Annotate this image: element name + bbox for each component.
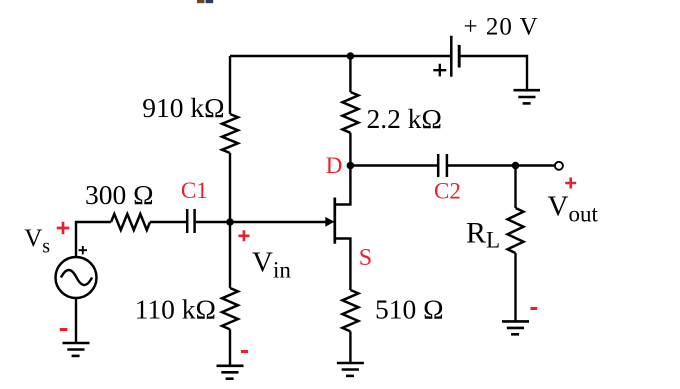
source Vs sine wave [61, 270, 92, 285]
ground (510) [337, 363, 364, 376]
resistor 910k [222, 114, 238, 153]
wire 110k bottom to ground [229, 329, 231, 366]
ground (battery) [514, 90, 541, 103]
svg-text:2.2 kΩ: 2.2 kΩ [367, 103, 442, 134]
label red + (Vs) [57, 222, 70, 235]
wire 510 bottom to ground [349, 331, 351, 363]
svg-text:Vs: Vs [24, 225, 50, 258]
wire Vs bottom to ground [75, 298, 77, 343]
svg-text:110 kΩ: 110 kΩ [135, 294, 216, 325]
node D junction dot [347, 162, 355, 170]
svg-text:510 Ω: 510 Ω [375, 294, 444, 325]
wire Vin node to 110k top [229, 222, 231, 288]
battery V1 + plate (long) [450, 36, 453, 77]
node RL junction dot [512, 162, 520, 170]
svg-text:300 Ω: 300 Ω [85, 179, 154, 210]
resistor 110k [222, 288, 238, 329]
capacitor C2 right plate [446, 154, 449, 177]
battery V1 - plate (short) [458, 45, 461, 68]
resistor 300 ohm [111, 214, 150, 230]
transistor Q1 gate arrow [325, 217, 334, 227]
capacitor C2 left plate [437, 154, 440, 177]
transistor Q1 JFET gate bar [333, 198, 336, 244]
resistor 2.2k [342, 92, 358, 133]
label red - (110k) [241, 350, 248, 353]
wire C2 to output terminal [448, 164, 555, 166]
clipped glyph fragment top edge [197, 0, 205, 3]
wire 2.2k bottom to drain node [349, 133, 351, 166]
wire 300 ohm to C1 [150, 221, 186, 223]
capacitor C1 right plate [193, 209, 196, 233]
svg-text:Vout: Vout [548, 191, 599, 227]
svg-text:C1: C1 [181, 178, 208, 203]
svg-text:910 kΩ: 910 kΩ [142, 92, 224, 123]
wire Vs top to signal line [76, 222, 111, 257]
label battery + sign [433, 64, 446, 77]
wire 2.2k top from rail [349, 56, 351, 92]
wire RL bottom to ground [514, 253, 516, 321]
resistor 510 ohm [342, 290, 358, 331]
label red - (Vs) [60, 328, 68, 331]
source Vs circle [56, 257, 97, 298]
wire RL branch [514, 166, 516, 209]
ground (Vs) [63, 343, 90, 356]
capacitor C1 left plate [186, 209, 189, 233]
wire 910k bottom to Vin node [229, 153, 231, 222]
svg-text:Vin: Vin [252, 247, 291, 283]
node Vin junction dot [226, 218, 234, 226]
wire battery - to ground corner [459, 56, 527, 89]
svg-text:D: D [326, 153, 343, 178]
svg-text:RL: RL [466, 217, 500, 253]
resistor RL [508, 208, 524, 253]
svg-text:C2: C2 [434, 179, 461, 204]
wire top rail left (node to battery +) [230, 55, 451, 57]
transistor Q1 source lead [335, 239, 351, 291]
wire C1 to gate [196, 221, 326, 223]
svg-text:S: S [359, 245, 372, 271]
svg-text:+ 20 V: + 20 V [464, 14, 539, 41]
label red + (Vin) [238, 230, 249, 241]
label red - (RL) [530, 307, 537, 310]
label red + (Vout) [565, 178, 576, 189]
ground (RL) [502, 321, 529, 334]
output terminal open circle [555, 162, 563, 170]
transistor Q1 drain lead [335, 166, 351, 205]
ground (110k) [217, 366, 244, 379]
wire 910k branch upper [229, 56, 231, 114]
label black + (Vs circle) [79, 246, 88, 254]
node junction dot (top rail / 2.2k) [347, 52, 355, 60]
wire drain node to C2 [350, 164, 437, 166]
